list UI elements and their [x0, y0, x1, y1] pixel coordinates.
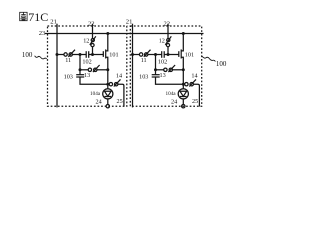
svg-text:22: 22	[88, 21, 95, 28]
node A junction on wire 21	[56, 53, 59, 56]
svg-text:100: 100	[22, 51, 33, 59]
leader squiggle (right 100)	[202, 56, 215, 61]
pixel box 100 (right, dashed)	[130, 26, 201, 106]
wire: capacitor 103 bottom to anode row	[80, 77, 108, 84]
node D2 junction (right pixel)	[182, 68, 185, 71]
pixel box 100 (left, dashed)	[48, 26, 127, 106]
svg-text:14: 14	[191, 72, 197, 79]
transistor 101 drain arm	[106, 34, 108, 51]
wire: switch 11 to node B	[72, 54, 86, 56]
svg-text:14: 14	[116, 72, 122, 79]
switch 14 (right pixel)	[185, 83, 188, 86]
svg-text:12: 12	[83, 38, 89, 45]
transistor 101 channel bar (right pixel)	[180, 49, 182, 58]
node D1 junction (right pixel)	[182, 32, 185, 35]
svg-text:12: 12	[159, 38, 165, 45]
svg-text:11: 11	[65, 57, 71, 64]
node D3 junction	[106, 83, 109, 86]
svg-text:101: 101	[185, 51, 194, 58]
switch 11 (right pixel)	[139, 53, 142, 56]
terminal 24 circle (right pixel)	[182, 105, 185, 108]
transistor 101 drain arm (right pixel)	[181, 34, 183, 51]
light-emitting element 104a stem (right pixel)	[182, 84, 184, 89]
wire 21 (vertical)	[56, 24, 58, 108]
svg-text:11: 11	[141, 57, 147, 64]
transistor 101 gate bar	[102, 51, 104, 57]
wire: node N3 to switch 13 (right pixel)	[156, 69, 164, 71]
capacitor 103 (right pixel)	[152, 74, 160, 76]
wire: node A to switch 11 (right pixel)	[133, 54, 140, 56]
node A junction (right pixel)	[131, 53, 134, 56]
svg-text:104a: 104a	[90, 91, 101, 97]
terminal 24 circle	[106, 105, 109, 108]
light-emitting element 104a	[103, 89, 113, 99]
svg-text:21: 21	[126, 18, 133, 25]
svg-text:103: 103	[139, 73, 148, 80]
transistor 101 source arm	[106, 57, 108, 84]
node D2 junction	[106, 68, 109, 71]
node B junction (right pixel)	[154, 53, 157, 56]
wire: capacitor 103 bottom to anode row (right pixel)	[156, 77, 184, 84]
terminal 24 stem (right pixel)	[182, 99, 184, 105]
switch 12	[91, 39, 94, 42]
svg-text:104a: 104a	[166, 91, 177, 97]
leader squiggle (left 100)	[35, 56, 47, 59]
svg-text:103: 103	[64, 73, 73, 80]
transistor 101 gate bar (right pixel)	[178, 51, 180, 57]
wire: node B down to node N3 (right pixel)	[155, 55, 157, 70]
capacitor 102 (right pixel)	[161, 51, 163, 58]
svg-text:25: 25	[192, 98, 198, 105]
node C junction (right pixel)	[167, 53, 170, 56]
wire: node A to switch 11	[57, 54, 64, 56]
switch 12 (right pixel)	[167, 39, 170, 42]
wire 25 (right pixel)	[193, 84, 199, 106]
transistor 101 channel bar	[105, 49, 107, 58]
capacitor 103 top stem (right pixel)	[155, 70, 157, 75]
svg-text:24: 24	[96, 99, 102, 106]
wire: switch 13 to node D2 (right pixel)	[173, 69, 184, 71]
wire 25 (switch 14 to bottom border)	[118, 84, 124, 106]
svg-text:71C: 71C	[28, 10, 48, 24]
wire: node N3 to switch 13	[80, 69, 88, 71]
switch 14	[109, 83, 112, 86]
wire: capacitor 102 to gate (right pixel)	[164, 54, 179, 56]
svg-text:25: 25	[117, 98, 123, 105]
wire: node B down to node N3	[79, 55, 81, 70]
node N3 junction	[79, 68, 82, 71]
wire 23 (horizontal data line)	[45, 33, 204, 35]
wire: switch 13 to node D2	[97, 69, 108, 71]
svg-text:21: 21	[50, 18, 57, 25]
svg-text:102: 102	[82, 58, 91, 65]
node D3 junction (right pixel)	[182, 83, 185, 86]
capacitor 103	[76, 74, 84, 76]
wire 22 (vertical)	[92, 24, 94, 39]
transistor 101 source arm (right pixel)	[181, 57, 183, 84]
node C junction (switch 12 tap)	[91, 53, 94, 56]
wire 21 (vertical, right pixel)	[132, 24, 134, 108]
node B junction (cap 103 branch)	[79, 53, 82, 56]
wire: switch 11 to node B (right pixel)	[148, 54, 162, 56]
switch 13 (right pixel)	[164, 68, 167, 71]
svg-text:13: 13	[160, 72, 166, 79]
svg-text:100: 100	[216, 60, 227, 68]
svg-text:102: 102	[158, 58, 167, 65]
capacitor 103 top stem	[79, 70, 81, 75]
wire 22 (vertical, right pixel)	[167, 24, 169, 39]
svg-text:23: 23	[39, 30, 46, 37]
switch 13	[88, 68, 91, 71]
switch 11	[64, 53, 67, 56]
svg-text:22: 22	[164, 21, 171, 28]
svg-text:24: 24	[171, 99, 177, 106]
wire: capacitor 102 to gate of 101	[89, 54, 104, 56]
svg-text:13: 13	[84, 72, 90, 79]
svg-text:101: 101	[109, 51, 118, 58]
node N3 junction (right pixel)	[154, 68, 157, 71]
terminal 24 stem	[107, 99, 109, 105]
node D1 junction on wire 23	[106, 32, 109, 35]
capacitor 102	[85, 51, 87, 58]
light-emitting element 104a stem	[107, 84, 109, 89]
light-emitting element 104a (right pixel)	[178, 89, 188, 99]
figure title glyph 圖	[20, 12, 27, 20]
